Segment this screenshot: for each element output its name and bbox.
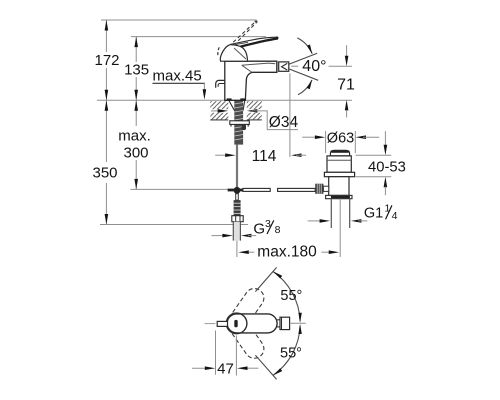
plan aerator box — [277, 317, 290, 329]
pop-up pull knob — [216, 80, 225, 87]
deck hatch left — [210, 101, 228, 120]
dimension max.180 — [238, 250, 339, 254]
label 135 — [124, 62, 149, 79]
plan spout swung down dashed — [223, 310, 267, 362]
svg-text:8: 8 — [275, 224, 281, 236]
plan faucet body pill — [227, 314, 277, 333]
label Ø63 — [327, 130, 354, 146]
label 172 — [94, 52, 119, 69]
tailpipe — [331, 199, 349, 228]
plan pivot circle — [226, 313, 247, 334]
aerator chevron — [282, 63, 288, 70]
label max.45 with leader — [153, 68, 207, 100]
Ø34 leader — [256, 111, 298, 130]
svg-text:350: 350 — [92, 165, 117, 182]
40° angle arc upper — [297, 38, 312, 55]
Ø34 label background — [262, 108, 301, 132]
svg-text:71: 71 — [337, 77, 355, 94]
40° leader dashes — [291, 65, 352, 67]
dimension 40-53 — [384, 131, 388, 195]
supply connector neck — [236, 194, 239, 200]
waste flange ring — [324, 172, 354, 176]
threaded adapter — [234, 200, 241, 216]
dimension Ø63 arrows — [302, 135, 379, 139]
label max.180 — [257, 244, 317, 261]
label 47 — [217, 360, 234, 377]
55° leader upper — [255, 267, 276, 291]
pop-up rod guide bracket — [242, 124, 246, 130]
47 extension lines — [216, 331, 237, 376]
svg-text:G1: G1 — [364, 206, 383, 222]
svg-text:55°: 55° — [280, 288, 302, 304]
base feet — [227, 98, 246, 100]
rod tee ball — [228, 187, 243, 194]
label 40-53 — [368, 159, 406, 175]
threaded shank — [234, 101, 243, 145]
55° leader lower — [255, 355, 276, 379]
aerator tip box — [277, 61, 289, 72]
dimension 135 line — [134, 37, 138, 101]
dimension 47 arrows — [192, 366, 258, 370]
dimension Ø34 arrows — [211, 109, 257, 113]
label G1 1/4 — [364, 203, 398, 222]
waste bottom ring — [326, 195, 352, 198]
lever handle raised dashed — [218, 21, 258, 56]
extension line top (172 spout max height) — [101, 19, 257, 21]
spray fan line lower — [289, 69, 318, 80]
svg-text:172: 172 — [94, 52, 119, 69]
55° arc upper — [273, 271, 302, 322]
horizontal rod left piece — [243, 188, 270, 191]
deck hatch gap strip — [205, 109, 262, 113]
G3/8 pipe stub — [233, 222, 240, 241]
Ø63 extension lines — [326, 131, 356, 153]
plan pop-up knob — [205, 321, 228, 326]
pop-up vertical rod — [236, 145, 238, 187]
dimension 350 line — [105, 100, 109, 224]
waste flange — [327, 156, 351, 172]
deck bottom line left — [210, 119, 228, 121]
deck top surface line — [97, 99, 352, 101]
dimension G1 1/4 arrows — [308, 219, 368, 223]
svg-text:135: 135 — [124, 62, 149, 79]
svg-text:max.180: max.180 — [257, 244, 317, 261]
svg-text:40°: 40° — [302, 58, 326, 75]
waste body — [329, 177, 349, 196]
label 114 — [252, 148, 277, 165]
label 350 — [92, 165, 117, 182]
plan lever mark — [234, 320, 237, 327]
dimension 114 arrows — [215, 153, 306, 157]
spray fan line upper — [289, 53, 317, 64]
horizontal rod right piece — [278, 188, 316, 191]
label 55° lower — [280, 345, 302, 361]
svg-text:40-53: 40-53 — [368, 159, 406, 175]
40-53 extension lines — [356, 155, 392, 177]
faucet body outline — [225, 61, 277, 100]
svg-text:Ø63: Ø63 — [327, 130, 354, 146]
label Ø34 — [269, 114, 299, 131]
svg-text:300: 300 — [123, 144, 148, 161]
plan spout swung up dashed — [223, 285, 267, 337]
waste cap dome — [330, 150, 349, 156]
svg-text:Ø34: Ø34 — [269, 114, 299, 131]
pipe centre extension — [236, 241, 238, 257]
svg-text:4: 4 — [392, 210, 398, 222]
extension from rod — [0, 0, 1, 1]
lever handle solid — [231, 37, 279, 47]
dimension 172 line — [105, 20, 109, 100]
dimension G3/8 arrows — [212, 234, 257, 238]
plan spout centreline — [290, 322, 306, 324]
tailpipe centre extension — [339, 199, 341, 257]
55° arc lower — [273, 324, 302, 375]
extension line hose end (350) — [100, 224, 248, 226]
label 71 — [337, 77, 355, 94]
svg-text:47: 47 — [217, 360, 234, 377]
deck bottom line right — [247, 119, 262, 121]
lever pivot wedge — [220, 44, 247, 61]
dimension 71 — [345, 45, 349, 117]
svg-text:114: 114 — [252, 148, 277, 165]
shank cone gasket — [229, 101, 245, 111]
40° angle arc lower — [298, 79, 312, 94]
svg-text:max.: max. — [118, 128, 151, 145]
spout inner lines — [242, 63, 275, 72]
label max. 300 — [118, 128, 151, 162]
label 40° — [302, 58, 326, 75]
deck hatch right — [247, 101, 262, 120]
label G3/8 — [253, 218, 280, 237]
rod knob knurled — [315, 184, 328, 194]
dimension max.300 line — [134, 100, 138, 189]
extension line lever top (135) — [131, 36, 266, 38]
adapter nut — [232, 216, 243, 222]
aerator extension line — [289, 73, 291, 157]
svg-text:max.45: max.45 — [153, 68, 202, 85]
svg-text:G: G — [253, 220, 265, 237]
extension line rod level (max.300) — [130, 188, 227, 190]
label 55° upper — [280, 288, 302, 304]
svg-text:55°: 55° — [280, 345, 302, 361]
svg-text:1: 1 — [385, 203, 391, 215]
mounting washer — [230, 121, 250, 127]
